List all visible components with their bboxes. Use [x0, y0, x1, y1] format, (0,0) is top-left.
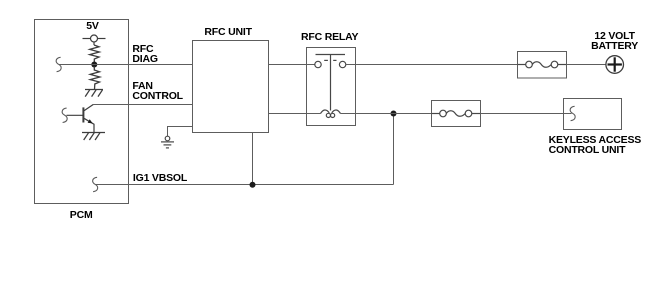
wire RFC UNIT ground lead	[168, 127, 193, 137]
connector squiggle (transistor base)	[62, 108, 67, 122]
label IG1 VBSOL	[133, 173, 187, 183]
fuse F2 box	[432, 101, 481, 127]
fuse F1 element	[518, 61, 567, 68]
transistor Q1	[67, 105, 95, 133]
KEYLESS ACCESS CONTROL UNIT box	[564, 99, 622, 130]
wire relay contact to fuse F1	[346, 64, 518, 66]
wire RFC DIAG	[59, 64, 193, 66]
wire fuse F2 to keyless unit	[480, 113, 572, 115]
RFC RELAY box	[307, 48, 356, 126]
label FAN CONTROL	[132, 81, 183, 101]
junction dot (riser / coil line)	[391, 111, 397, 117]
wire RFC UNIT bottom to IG1 VBSOL	[252, 133, 254, 185]
resistor R2	[90, 67, 100, 90]
fuse F1 box	[518, 52, 567, 79]
connector squiggle (RFC DIAG)	[56, 57, 61, 71]
earth ground (RFC UNIT)	[161, 136, 174, 148]
junction dot (RFC UNIT / IG1 VBSOL)	[250, 182, 256, 188]
label RFC DIAG	[132, 44, 157, 64]
label RFC RELAY	[301, 32, 358, 42]
wire RFC UNIT to relay coil	[269, 113, 321, 115]
chassis ground (emitter)	[82, 133, 105, 141]
label 5V	[86, 21, 98, 31]
label RFC UNIT	[204, 27, 251, 37]
label KEYLESS ACCESS CONTROL UNIT	[549, 135, 642, 155]
wire relay coil to fuse F2	[341, 113, 432, 115]
battery positive terminal	[606, 56, 624, 74]
connector squiggle (IG1 VBSOL)	[93, 177, 98, 191]
RFC UNIT box U1	[193, 41, 269, 133]
connector squiggle (keyless access control unit)	[570, 106, 575, 120]
wire RFC UNIT to relay contact	[269, 64, 315, 66]
chassis ground (below R2)	[85, 90, 103, 97]
PCM box	[35, 20, 129, 204]
node A junction dot RFC DIAG	[91, 62, 97, 68]
wire fuse F1 to battery	[566, 64, 606, 66]
wire IG1 VBSOL vertical riser	[393, 114, 395, 185]
fuse F2 element	[432, 110, 481, 117]
label 12 VOLT BATTERY	[585, 31, 645, 51]
resistor R1	[90, 45, 100, 62]
5V supply terminal	[83, 35, 106, 45]
wire FAN CONTROL	[93, 104, 193, 106]
relay coil	[321, 110, 341, 118]
wire IG1 VBSOL	[95, 184, 393, 186]
relay contact	[315, 55, 346, 111]
label PCM	[70, 210, 93, 220]
